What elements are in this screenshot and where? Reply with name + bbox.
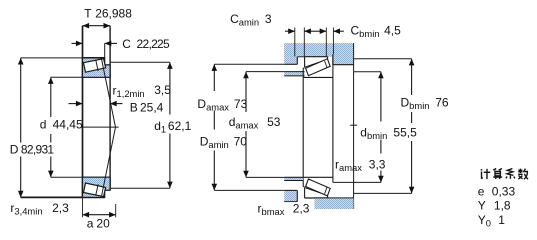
- bearing outline left view: [82, 26, 84, 198]
- svg-text:20: 20: [96, 217, 110, 231]
- svg-text:3: 3: [265, 12, 272, 26]
- svg-text:T: T: [84, 6, 92, 20]
- svg-text:55,5: 55,5: [393, 125, 417, 139]
- svg-text:a: a: [87, 217, 94, 231]
- svg-text:4,5: 4,5: [384, 23, 401, 37]
- svg-text:1,8: 1,8: [494, 199, 511, 213]
- svg-text:e: e: [478, 184, 485, 198]
- shaft shoulder top-right piece: [333, 43, 354, 65]
- cone bottom section: [83, 177, 111, 192]
- dimension damax 53: [245, 72, 247, 112]
- roller bottom section: [84, 183, 106, 197]
- svg-text:53: 53: [267, 115, 281, 129]
- svg-text:25,4: 25,4: [140, 101, 164, 115]
- housing shoulder top-left block: [284, 43, 297, 64]
- dimension D 82,931: [20, 58, 22, 143]
- svg-text:C: C: [122, 37, 131, 51]
- right view bearing bottom section: [305, 197, 328, 199]
- dimension d 44,45: [50, 77, 52, 117]
- dimension T 26,988: [83, 25, 111, 27]
- svg-text:2,3: 2,3: [293, 201, 310, 215]
- cup top section: [83, 58, 105, 70]
- right view bearing top section (white): [305, 56, 328, 58]
- dimension dbmin 55,5: [354, 71, 381, 73]
- svg-text:22,225: 22,225: [137, 37, 171, 51]
- svg-text:70: 70: [234, 135, 248, 149]
- housing abutment bottom band: [314, 198, 353, 209]
- shaft abutment top strip: [284, 72, 304, 76]
- svg-text:26,988: 26,988: [95, 6, 132, 20]
- dimension a 20: [82, 197, 84, 217]
- svg-text:82,931: 82,931: [21, 143, 55, 157]
- svg-text:3,5: 3,5: [154, 83, 171, 97]
- svg-text:D: D: [10, 143, 19, 157]
- cone top section: [83, 64, 111, 78]
- housing abutment top band: [284, 43, 353, 57]
- pressure lines and axis: [102, 59, 116, 127]
- dimension Dbmin 76: [354, 58, 412, 60]
- dimension Cbmin 4,5: [316, 30, 327, 32]
- dimension B 25,4: [69, 103, 83, 105]
- right view bearing bore region edges: [302, 77, 304, 177]
- housing shoulder bottom-left block: [284, 190, 297, 201]
- cup bottom section: [83, 185, 105, 197]
- shaft abutment bottom strip: [284, 177, 303, 180]
- dimension d1 62,1: [110, 61, 170, 63]
- roller top section: [84, 59, 106, 73]
- dimension Damax 73 / Damin 70: [213, 64, 215, 91]
- chinese heading 计算系数 (calculation factors), drawn as paths: [481, 169, 491, 179]
- svg-text:0,33: 0,33: [492, 184, 516, 198]
- svg-text:Y: Y: [478, 199, 486, 213]
- svg-text:3,3: 3,3: [369, 157, 386, 171]
- dimension C 22,225: [72, 42, 83, 44]
- svg-text:2,3: 2,3: [52, 201, 69, 215]
- svg-text:d: d: [40, 117, 47, 131]
- svg-text:1: 1: [498, 213, 505, 227]
- dimension Camin 3: [285, 30, 295, 32]
- svg-text:76: 76: [435, 96, 449, 110]
- svg-text:62,1: 62,1: [168, 119, 192, 133]
- svg-text:44,45: 44,45: [53, 117, 83, 131]
- svg-text:B: B: [130, 101, 138, 115]
